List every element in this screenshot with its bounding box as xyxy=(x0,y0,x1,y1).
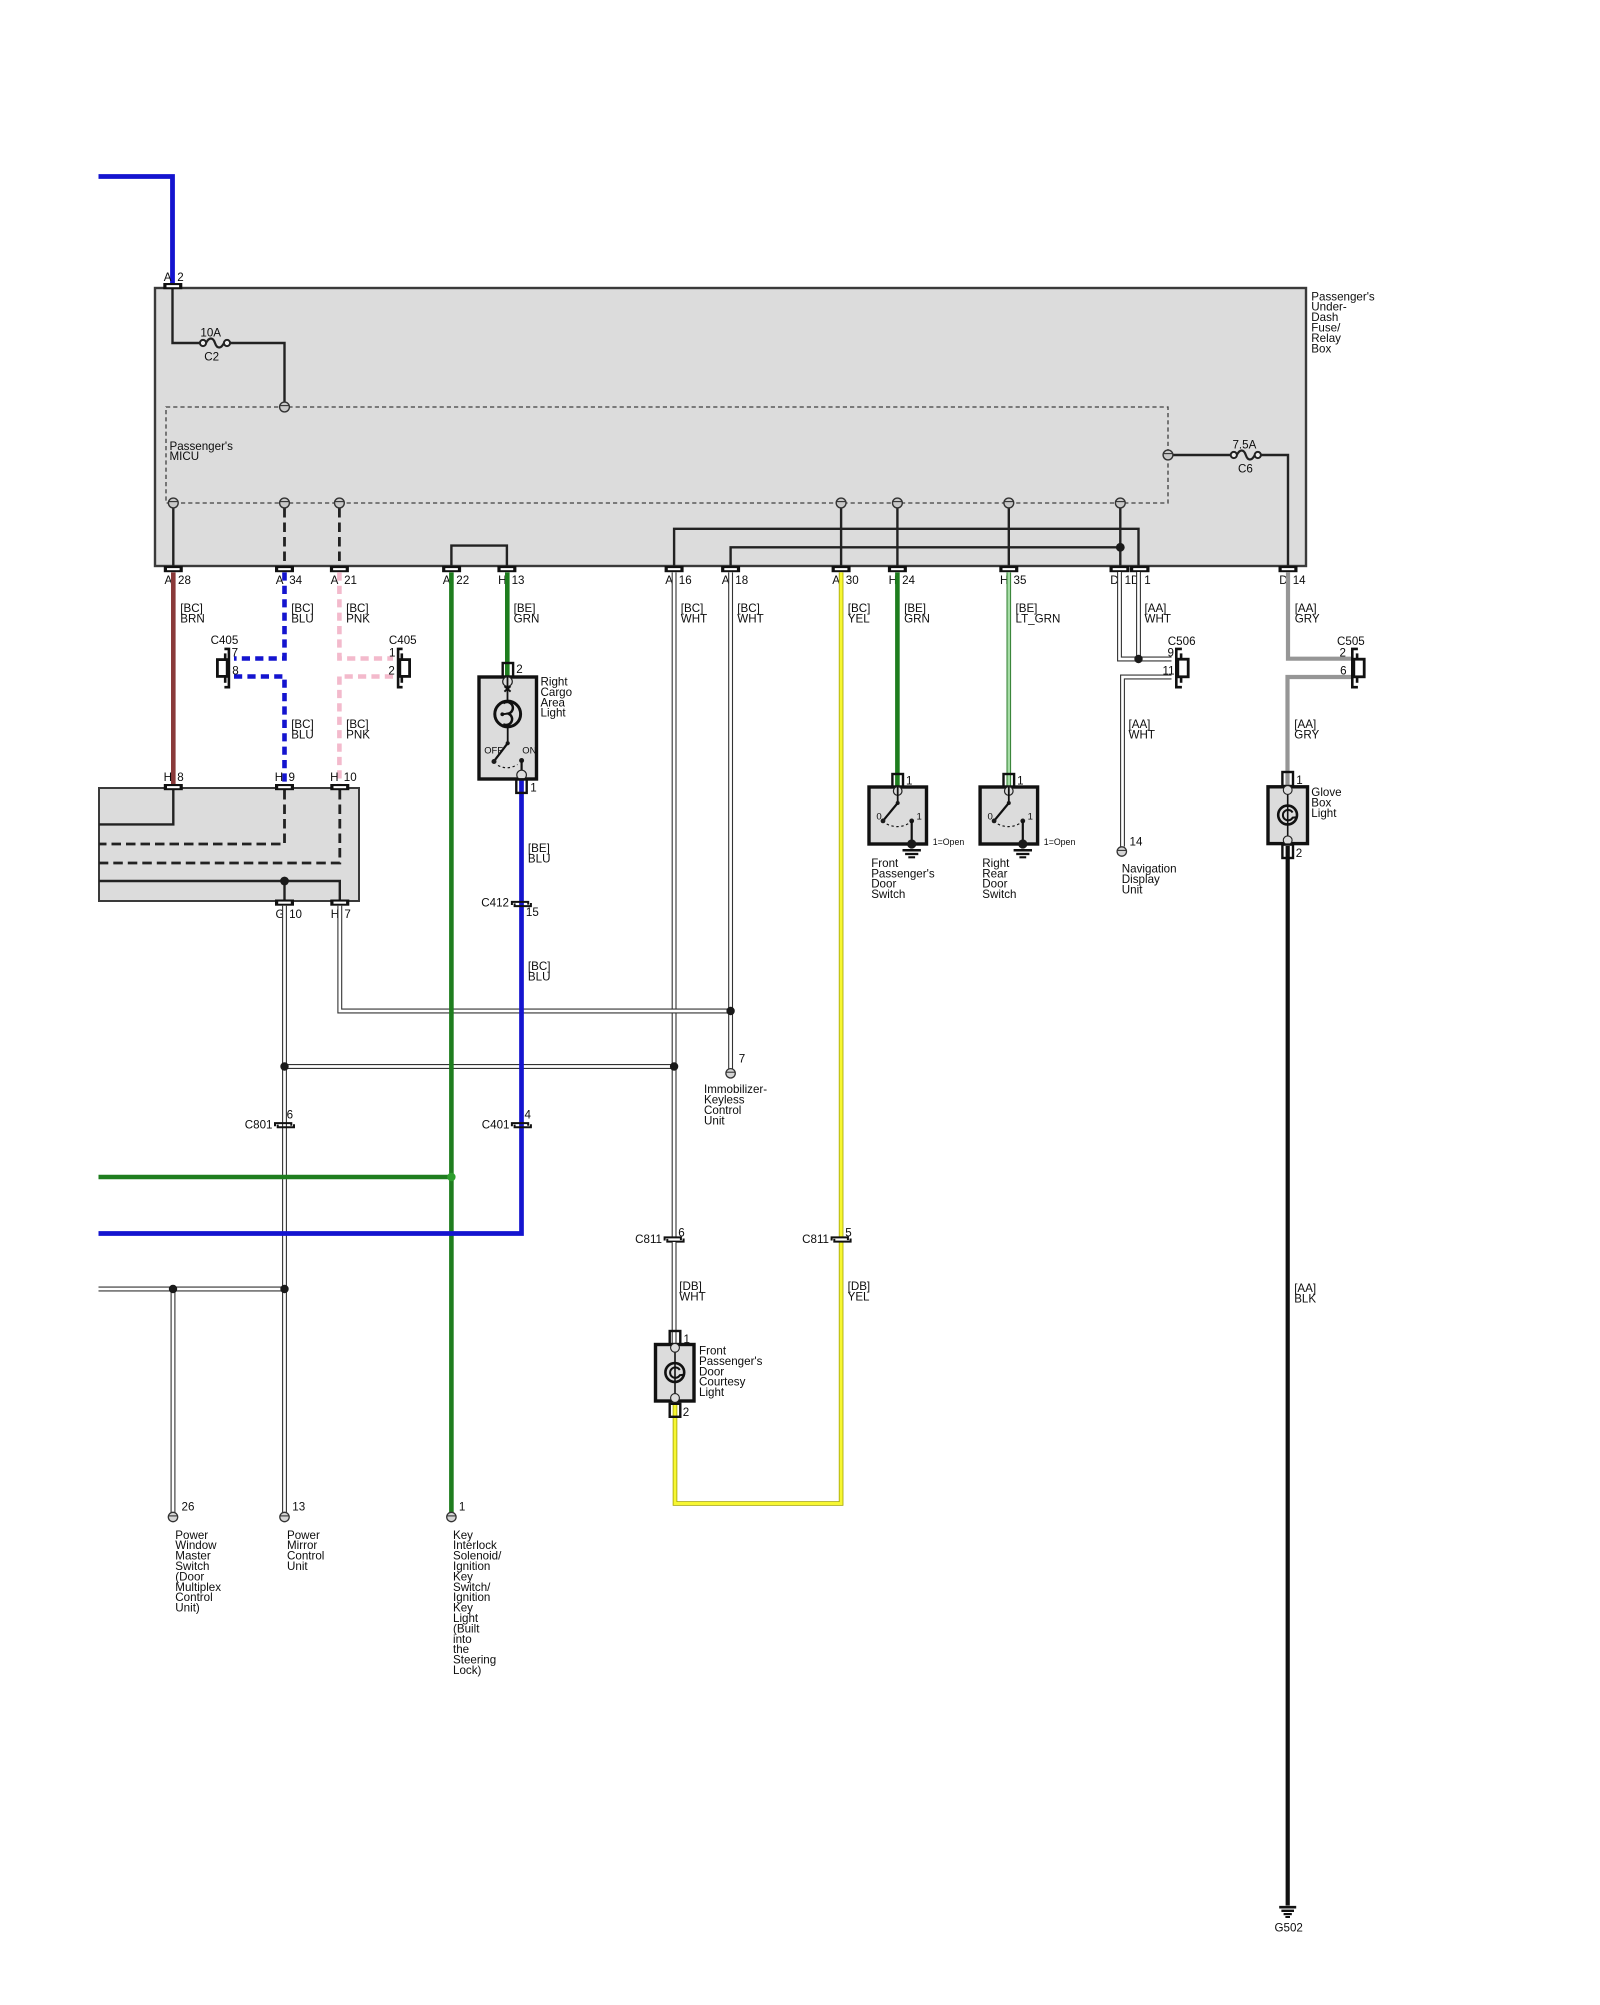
svg-text:1=Open: 1=Open xyxy=(933,837,965,847)
wire H24 [BE] GRN to front door switch xyxy=(895,572,900,788)
svg-text:4: 4 xyxy=(525,1109,532,1122)
svg-text:6: 6 xyxy=(678,1226,684,1239)
svg-text:Light: Light xyxy=(1311,807,1337,820)
svg-text:2: 2 xyxy=(516,663,522,676)
wire A16 [BC] WHT down to C811-6 xyxy=(672,572,677,1236)
Power Mirror Control Unit pin 13 xyxy=(280,1512,289,1521)
svg-text:BLU: BLU xyxy=(291,728,314,741)
wire D14 [AA] GRY to C505 pin 2 xyxy=(1288,572,1351,659)
svg-text:2: 2 xyxy=(388,665,394,678)
wire D 1D down to C506 pin 9 xyxy=(1120,572,1172,659)
connector A28 xyxy=(164,566,183,572)
svg-text:BLU: BLU xyxy=(291,613,314,626)
svg-text:1: 1 xyxy=(1028,812,1033,823)
svg-text:2: 2 xyxy=(683,1406,689,1419)
MICU pin circle (A30) xyxy=(836,498,846,508)
svg-text:Lock): Lock) xyxy=(453,1664,481,1677)
wire: MICU to H24 xyxy=(896,508,898,566)
wire: H8 internal xyxy=(99,790,173,824)
connector A2 xyxy=(163,283,182,289)
svg-text:BLK: BLK xyxy=(1294,1292,1316,1305)
wire H13 [BE] GRN to cargo light xyxy=(505,572,510,676)
svg-text:C811: C811 xyxy=(635,1233,662,1246)
connector H7 xyxy=(330,900,349,906)
wire: G10/H7 internal solid xyxy=(99,881,340,900)
connector A22 xyxy=(442,566,461,572)
svg-text:Light: Light xyxy=(541,707,567,720)
connector A21 xyxy=(330,566,349,572)
svg-text:C2: C2 xyxy=(204,351,219,364)
connector C811 pin 5 xyxy=(832,1237,848,1240)
svg-text:14: 14 xyxy=(1293,574,1306,587)
svg-text:24: 24 xyxy=(902,574,915,587)
fuse C6 7.5A xyxy=(1237,451,1255,460)
svg-text:GRN: GRN xyxy=(904,613,930,626)
wire: blue battery feed to A2 xyxy=(99,177,173,284)
svg-text:1: 1 xyxy=(1296,774,1302,787)
connector C506 (pins 9/11) xyxy=(1176,649,1182,687)
MICU pin circle (A34) xyxy=(280,498,290,508)
wire: H10 internal dashed xyxy=(99,790,340,863)
svg-text:26: 26 xyxy=(182,1500,195,1513)
Passenger's MICU dashed box xyxy=(166,407,1168,503)
svg-text:6: 6 xyxy=(287,1109,293,1122)
wire: MICU to fuse C6 xyxy=(1173,454,1231,456)
svg-text:10: 10 xyxy=(289,908,302,921)
svg-text:Switch: Switch xyxy=(982,888,1016,901)
svg-text:11: 11 xyxy=(1163,664,1175,677)
svg-text:GRY: GRY xyxy=(1295,613,1320,626)
svg-text:1=Open: 1=Open xyxy=(1044,837,1076,847)
Front Passenger's Door Switch xyxy=(869,774,964,901)
wire: fuse C6 to D14 xyxy=(1261,455,1288,566)
svg-text:BRN: BRN xyxy=(180,613,204,626)
svg-text:C412: C412 xyxy=(481,897,509,910)
svg-text:H: H xyxy=(330,771,338,784)
svg-text:28: 28 xyxy=(178,574,191,587)
svg-text:14: 14 xyxy=(1130,835,1143,848)
svg-text:8: 8 xyxy=(177,771,183,784)
wire A22 [BE] GRN down to key interlock xyxy=(449,572,454,1512)
junction dots on white wires xyxy=(726,1007,734,1015)
wire: MICU to A30 xyxy=(840,508,842,566)
wire: A16 internal loop to D 1 xyxy=(674,529,1138,566)
svg-text:13: 13 xyxy=(512,574,525,587)
Navigation Display Unit pin 14 xyxy=(1117,847,1126,856)
svg-text:YEL: YEL xyxy=(848,1290,870,1303)
svg-text:18: 18 xyxy=(735,574,748,587)
MICU pin circle (D) xyxy=(1115,498,1125,508)
connector D 1 (right) xyxy=(1130,566,1150,572)
MICU pin circle (A21) xyxy=(335,498,345,508)
connector C811 pin 6 xyxy=(665,1237,681,1240)
wire: MICU to A28 xyxy=(172,508,174,566)
wire A28 [BC] BRN xyxy=(171,572,176,784)
wire G10 down to power mirror xyxy=(282,906,287,1513)
wire: MICU to A21 (dashed) xyxy=(338,508,341,566)
connector H8 xyxy=(164,784,183,790)
wire cargo light pin1 [BE]/[BC] BLU to page edge xyxy=(99,780,522,1234)
svg-text:A: A xyxy=(164,271,172,284)
wire [AA] BLK glove box light to G502 xyxy=(1286,846,1290,1906)
wire: A22-H13 internal bridge xyxy=(451,546,507,566)
wire: MICU to A34 (dashed) xyxy=(283,508,286,566)
wire left horizontal to junctions at y1289 xyxy=(99,1287,285,1292)
wire: MICU to H35 xyxy=(1008,508,1010,566)
connector C412 pin 15 xyxy=(512,902,528,905)
svg-text:2: 2 xyxy=(177,271,183,284)
wire: H9 internal dashed xyxy=(99,790,285,844)
svg-text:5: 5 xyxy=(845,1226,851,1239)
svg-text:0: 0 xyxy=(987,812,992,823)
svg-text:WHT: WHT xyxy=(681,613,707,626)
svg-text:C811: C811 xyxy=(802,1233,829,1246)
MICU pin circle (C2 feed) xyxy=(280,402,290,412)
svg-text:Box: Box xyxy=(1311,342,1331,355)
svg-text:WHT: WHT xyxy=(679,1290,705,1303)
connector H9 xyxy=(275,784,294,790)
svg-text:C801: C801 xyxy=(245,1118,273,1131)
svg-text:Unit: Unit xyxy=(704,1114,725,1127)
MICU pin circle (H24) xyxy=(893,498,903,508)
svg-text:C6: C6 xyxy=(1238,463,1253,476)
wire C506 pin 11 to navigation unit xyxy=(1123,677,1172,847)
svg-text:1: 1 xyxy=(389,647,395,660)
Right Rear Door Switch xyxy=(980,774,1075,901)
svg-text:2: 2 xyxy=(1296,847,1302,860)
connector A18 xyxy=(721,566,740,572)
svg-text:10A: 10A xyxy=(200,327,221,340)
wire C405 pin 2 to H10 [BC] PNK dashed xyxy=(339,677,393,785)
Glove Box Light xyxy=(1268,772,1342,1843)
connector H13 xyxy=(497,566,516,572)
svg-text:15: 15 xyxy=(526,906,539,919)
svg-text:BLU: BLU xyxy=(528,970,551,983)
svg-text:0: 0 xyxy=(876,812,881,823)
connector A16 xyxy=(665,566,684,572)
MICU pin circle (A28) xyxy=(168,498,178,508)
svg-text:WHT: WHT xyxy=(1145,613,1171,626)
left control-unit gray box xyxy=(99,788,359,901)
svg-text:2: 2 xyxy=(1340,646,1346,659)
svg-text:35: 35 xyxy=(1014,574,1027,587)
svg-text:7: 7 xyxy=(739,1052,745,1065)
svg-text:16: 16 xyxy=(679,574,692,587)
svg-text:1: 1 xyxy=(530,781,536,794)
svg-text:GRY: GRY xyxy=(1294,728,1319,741)
Front Passenger's Door Courtesy Light xyxy=(656,1331,763,1419)
connector A34 xyxy=(275,566,294,572)
Passenger's Under-Dash Fuse/Relay Box xyxy=(155,288,1306,566)
svg-text:7: 7 xyxy=(232,647,238,660)
wire [DB] WHT C811-6 to courtesy light xyxy=(672,1242,677,1344)
svg-text:Unit: Unit xyxy=(287,1560,308,1573)
wire A21 [BC] PNK dashed to C405 pin 1 xyxy=(339,572,393,658)
connector H35 xyxy=(999,566,1018,572)
connector G10 xyxy=(275,900,294,906)
MICU pin circle (H35) xyxy=(1004,498,1014,508)
svg-text:PNK: PNK xyxy=(346,728,370,741)
svg-text:13: 13 xyxy=(292,1500,305,1513)
MICU pin circle (C6 feed) xyxy=(1163,450,1173,460)
junction D internal xyxy=(1116,543,1125,552)
svg-text:7: 7 xyxy=(344,908,350,921)
connector C801 pin 6 xyxy=(275,1123,291,1126)
svg-text:C405: C405 xyxy=(211,634,239,647)
connector C405 (right, pins 1/2) xyxy=(398,649,403,687)
ground G502 xyxy=(1279,1906,1296,1909)
svg-text:OFF: OFF xyxy=(484,745,503,756)
wire A30 [BC] YEL down to C811-5 xyxy=(839,572,844,1237)
wire C405 pin 8 to H9 [BC] BLU dashed xyxy=(234,677,285,785)
svg-text:6: 6 xyxy=(1340,664,1346,677)
Power Window Master Switch pin 26 xyxy=(168,1512,177,1521)
Right Cargo Area Light xyxy=(479,663,572,794)
svg-text:BLU: BLU xyxy=(528,852,551,865)
svg-text:9: 9 xyxy=(289,771,295,784)
svg-text:G502: G502 xyxy=(1275,1922,1303,1935)
wire [DB] YEL from C811-5 to courtesy light pin 2 xyxy=(675,1242,841,1504)
wire: A2 to fuse C2 xyxy=(173,289,200,343)
svg-text:10: 10 xyxy=(344,771,357,784)
connector D 1D (left) xyxy=(1110,566,1130,572)
wire: MICU to D/1D connector xyxy=(1119,508,1121,566)
svg-text:21: 21 xyxy=(344,574,357,587)
connector C401 pin 4 xyxy=(512,1123,528,1126)
svg-text:1: 1 xyxy=(459,1500,465,1513)
wire: A18 internal to junction xyxy=(731,547,1121,566)
fuse C2 10A xyxy=(206,339,224,348)
wire H7 to A18 junction xyxy=(340,906,728,1011)
Immobilizer-Keyless Control Unit pin 7 xyxy=(726,1069,735,1078)
svg-text:C405: C405 xyxy=(389,634,417,647)
svg-text:MICU: MICU xyxy=(170,450,200,463)
svg-text:C401: C401 xyxy=(482,1118,510,1131)
wire A34 [BC] BLU dashed to C405 pin 7 xyxy=(234,572,285,658)
svg-text:H: H xyxy=(275,771,283,784)
svg-text:34: 34 xyxy=(289,574,302,587)
svg-text:30: 30 xyxy=(846,574,859,587)
junction green xyxy=(447,1173,455,1181)
svg-text:WHT: WHT xyxy=(1129,728,1155,741)
svg-text:7.5A: 7.5A xyxy=(1232,439,1256,452)
wire H35 [BE] LT_GRN to rear door switch xyxy=(1006,572,1011,788)
svg-text:1: 1 xyxy=(917,812,922,823)
svg-text:PNK: PNK xyxy=(346,613,370,626)
svg-text:9: 9 xyxy=(1168,646,1174,659)
svg-text:GRN: GRN xyxy=(514,613,540,626)
wire G10 branch to A16 wire xyxy=(285,1064,675,1069)
svg-text:H: H xyxy=(164,771,172,784)
wire D 1 down to junction xyxy=(1136,572,1141,657)
wire branch down to power window switch xyxy=(171,1291,176,1512)
svg-text:Unit): Unit) xyxy=(175,1602,200,1615)
svg-text:22: 22 xyxy=(456,574,469,587)
wire C505 pin 6 to glove box light xyxy=(1288,677,1352,785)
connector H24 xyxy=(888,566,907,572)
wire A18 [BC] WHT down to immobilizer xyxy=(728,572,733,1068)
svg-text:YEL: YEL xyxy=(848,613,870,626)
connector H10 xyxy=(330,784,349,790)
svg-text:Unit: Unit xyxy=(1122,883,1143,896)
svg-text:Light: Light xyxy=(699,1386,725,1399)
svg-text:Switch: Switch xyxy=(871,888,905,901)
connector A30 xyxy=(832,566,851,572)
svg-text:WHT: WHT xyxy=(737,613,763,626)
connector C405 (left, pins 7/8) xyxy=(224,649,229,687)
svg-text:LT_GRN: LT_GRN xyxy=(1016,613,1061,626)
wire green horizontal from page edge xyxy=(99,1175,452,1180)
Key Interlock Solenoid pin 1 xyxy=(447,1512,456,1521)
connector C505 (pins 2/6) xyxy=(1352,649,1358,687)
connector D14 xyxy=(1279,566,1298,572)
svg-text:1: 1 xyxy=(1144,574,1150,587)
svg-text:8: 8 xyxy=(232,665,238,678)
junction G10 internal xyxy=(280,877,289,886)
wire: fuse C2 to MICU xyxy=(231,343,285,402)
svg-text:ON: ON xyxy=(522,745,536,756)
